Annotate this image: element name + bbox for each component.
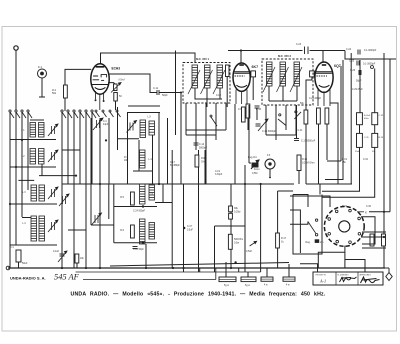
wire [195, 88, 222, 99]
svg-text:50-380pF: 50-380pF [170, 165, 180, 167]
trimmer C.5 [48, 220, 58, 232]
coil L.5 [31, 185, 37, 201]
junction [183, 227, 185, 229]
resistor R.1 [75, 254, 79, 263]
wire 6Q7 pins [318, 90, 330, 107]
coil L.13b [149, 223, 155, 240]
coil L.3 [30, 149, 36, 165]
junction [99, 183, 101, 185]
svg-text:APPROVATO: APPROVATO [360, 273, 372, 276]
capacitor C.17 [294, 139, 299, 141]
resistor R.18 [372, 113, 378, 125]
terminal [371, 66, 374, 69]
wire [206, 88, 208, 107]
coil L.13 [140, 219, 146, 244]
junction [172, 267, 174, 269]
coil L.2 [39, 123, 45, 138]
wire [145, 244, 147, 268]
svg-text:L.11: L.11 [149, 159, 154, 161]
ground bus [8, 267, 385, 269]
resistor R.5 [131, 192, 135, 205]
wire [15, 112, 17, 245]
svg-text:5g w: 5g w [224, 285, 229, 287]
wire [318, 124, 320, 184]
wire [108, 118, 110, 184]
band switch contacts left group [9, 110, 32, 118]
svg-text:5g w: 5g w [245, 285, 250, 287]
junction [85, 267, 87, 269]
wire [300, 264, 318, 272]
wire [9, 112, 11, 268]
trimmer C.13 [59, 194, 69, 206]
trimmer arrow MF1 [188, 70, 225, 94]
terminal lug 4 [283, 277, 295, 281]
wire [350, 53, 352, 184]
svg-text:C.24: C.24 [346, 48, 352, 51]
wire [10, 203, 57, 205]
wire [249, 162, 251, 164]
svg-text:M.F. 450 1: M.F. 450 1 [196, 57, 210, 61]
wire [248, 105, 250, 163]
wire bus [76, 271, 261, 273]
junction [383, 236, 385, 238]
wire [61, 112, 63, 268]
wire [362, 247, 386, 249]
wire [228, 50, 303, 52]
wire [290, 222, 308, 225]
wire [268, 86, 270, 101]
fuse F.1 [38, 69, 47, 97]
junction [99, 267, 101, 269]
wire [247, 272, 249, 277]
junction [15, 166, 17, 168]
capacitor C.24 [358, 50, 360, 55]
wire [18, 179, 34, 181]
wire 6K7 pins [236, 90, 247, 105]
svg-text:R.19: R.19 [342, 159, 348, 161]
wire [244, 165, 246, 272]
wire [266, 134, 296, 136]
wire [64, 98, 66, 111]
speaker [324, 207, 364, 247]
svg-text:C.36: C.36 [366, 206, 372, 208]
IF transformer M.F.450-1 box [183, 63, 230, 104]
svg-text:C.31: C.31 [364, 137, 369, 139]
wire [128, 112, 160, 114]
wire [340, 66, 342, 161]
junction [230, 267, 232, 269]
pin dot [95, 99, 97, 101]
wire [108, 184, 110, 219]
svg-text:50pF: 50pF [356, 80, 362, 83]
svg-text:C.29 25uF: C.29 25uF [352, 89, 363, 91]
junction [21, 139, 23, 141]
coil MF1-b [205, 65, 211, 88]
junction [260, 183, 262, 185]
junction [145, 267, 147, 269]
svg-text:C.16 5000pF: C.16 5000pF [262, 130, 276, 133]
junction [244, 183, 246, 185]
svg-text:0,5w: 0,5w [234, 241, 239, 244]
svg-text:C.11: C.11 [153, 87, 159, 90]
stamp box [313, 272, 383, 285]
wire [247, 118, 249, 130]
signature 3 [361, 277, 380, 283]
trimmer arrow MF2 [263, 67, 302, 92]
label X [357, 211, 364, 213]
wire [214, 226, 216, 272]
wire [39, 175, 76, 177]
resistor R.20 [370, 234, 374, 246]
wire [90, 184, 92, 225]
resistor R.21 [382, 234, 386, 246]
pin dot [103, 100, 105, 102]
svg-text:Reg.: Reg. [306, 241, 311, 244]
jack F.3 [265, 159, 275, 176]
wire top bracket [101, 53, 196, 64]
trimmer C.2 [48, 124, 58, 136]
coil MF2-c [294, 62, 300, 86]
junction [182, 267, 184, 269]
wire [285, 105, 287, 130]
wire [326, 124, 328, 160]
wire [359, 125, 361, 134]
svg-text:Fono: Fono [254, 168, 260, 171]
svg-text:4 w: 4 w [286, 285, 290, 287]
svg-text:5000 pF: 5000 pF [307, 140, 316, 143]
svg-text:0,25w: 0,25w [234, 210, 241, 213]
wire [389, 59, 391, 212]
capacitor C.9 [255, 106, 260, 108]
wire [127, 112, 129, 184]
svg-text:C.32: C.32 [379, 115, 384, 117]
wire [180, 93, 182, 185]
svg-text:A-1: A-1 [319, 279, 326, 284]
junction [158, 183, 160, 185]
wire [162, 184, 164, 203]
tube ECH3 [91, 64, 109, 94]
wire [322, 148, 360, 192]
wire [290, 210, 300, 253]
wire [186, 134, 216, 136]
wire [325, 60, 343, 180]
wire [269, 100, 297, 102]
capacitor C.1 electrolytic [16, 250, 21, 262]
svg-text:3-30pF: 3-30pF [215, 174, 223, 176]
output transformer [293, 195, 322, 255]
svg-text:0,25M Ohm: 0,25M Ohm [302, 161, 315, 164]
capacitor C.35 [60, 254, 65, 256]
wire [345, 51, 396, 60]
wire [73, 112, 75, 268]
trimmer C.3 [48, 150, 58, 162]
capacitor C.11 [157, 90, 159, 95]
wire [290, 196, 330, 207]
wire [117, 107, 119, 150]
tube 6K7 [233, 63, 256, 91]
wire [383, 53, 385, 268]
wire [369, 211, 390, 213]
svg-text:L.12: L.12 [149, 194, 154, 196]
wire [275, 105, 277, 140]
resistor R.16b [297, 155, 301, 171]
junction [9, 203, 11, 205]
wire bus [83, 279, 216, 281]
svg-text:0,5M: 0,5M [252, 172, 257, 175]
wire [345, 260, 365, 273]
terminal lug 2 [241, 277, 256, 282]
capacitor C.25 [357, 61, 359, 66]
wire [361, 236, 384, 238]
wire [41, 164, 43, 176]
wire [114, 206, 157, 208]
svg-text:C.18 50pF: C.18 50pF [133, 249, 144, 251]
wire [10, 166, 56, 168]
switch S.3 [278, 114, 286, 126]
switch S.2 [210, 115, 217, 126]
wire [215, 268, 217, 280]
resistor R.9 [195, 155, 199, 167]
svg-text:C.1: C.1 [10, 246, 14, 249]
wire [199, 268, 201, 272]
svg-text:Ohm: Ohm [201, 160, 206, 163]
capacitor C.18 [133, 247, 138, 249]
resistor R.12a [229, 206, 233, 212]
wire [108, 83, 115, 84]
wire [215, 103, 217, 140]
band switch contacts osc [95, 110, 121, 117]
ground arrow [385, 268, 392, 281]
tone potentiometer [315, 239, 320, 243]
wire [138, 140, 140, 171]
ground terminal [6, 266, 10, 270]
potentiometer arrow 2 [250, 241, 257, 246]
wire [225, 262, 227, 277]
trimmer C.8 [93, 118, 103, 130]
wire [277, 248, 279, 268]
wire [238, 268, 240, 272]
wire [295, 105, 297, 135]
wire [79, 112, 81, 184]
wire [204, 150, 206, 184]
svg-text:5000pF: 5000pF [199, 146, 208, 149]
wire [219, 88, 221, 99]
wire [306, 77, 312, 110]
potentiometer arrow 3 [58, 251, 67, 262]
svg-text:C.22 200pF: C.22 200pF [309, 98, 322, 100]
wire [76, 263, 78, 268]
wire [374, 69, 376, 113]
coil MF2-b [280, 62, 286, 86]
wire [159, 92, 181, 94]
resistor R.3 [114, 93, 118, 102]
wire [310, 50, 346, 52]
wire [22, 217, 31, 219]
svg-text:0,1-3000pF: 0,1-3000pF [363, 63, 376, 66]
IF transformer M.F.450-2 box [262, 59, 313, 105]
wire [198, 150, 200, 272]
svg-text:C.37: C.37 [187, 226, 193, 228]
svg-text:6Q7: 6Q7 [334, 64, 341, 68]
trimmer C.6 [114, 84, 118, 91]
resistor R.17 [276, 233, 280, 248]
trimmer C.12 [92, 213, 102, 225]
svg-text:R.5: R.5 [120, 196, 124, 199]
resistor R.10 [246, 104, 250, 118]
wire [282, 86, 284, 101]
svg-text:C.25: C.25 [349, 60, 355, 63]
capacitor C.14 [194, 143, 199, 145]
svg-text:R.22: R.22 [342, 206, 348, 208]
svg-text:C.17: C.17 [170, 162, 176, 164]
capacitor C.20 [256, 124, 261, 126]
wire [186, 129, 226, 131]
switch S.4 [294, 111, 301, 119]
star mark [234, 261, 236, 263]
signature 2 [340, 277, 357, 282]
wire [330, 103, 338, 184]
resistor R.6 [131, 225, 135, 238]
svg-text:C.32: C.32 [363, 159, 369, 161]
svg-text:545 AF: 545 AF [54, 273, 80, 282]
wire [90, 118, 92, 184]
resistor R.13 [304, 110, 308, 124]
wire [27, 112, 29, 190]
wire [68, 229, 86, 231]
wire [128, 105, 160, 107]
wire [171, 150, 173, 268]
svg-text:R.23: R.23 [379, 137, 384, 139]
wire [234, 104, 236, 184]
junction [142, 242, 144, 244]
svg-text:44pF: 44pF [103, 124, 109, 126]
wire [115, 101, 117, 110]
coil MF2-a [267, 62, 273, 86]
wire [266, 268, 268, 277]
capacitor C.26 [359, 70, 361, 75]
svg-text:ECH3: ECH3 [112, 66, 121, 70]
wire bus [306, 183, 352, 185]
svg-text:C.19: C.19 [215, 171, 221, 173]
wire [344, 246, 346, 268]
wire [155, 202, 172, 204]
terminal lug 1 [219, 277, 236, 282]
wire [230, 184, 232, 268]
resistor R.11 [242, 107, 246, 122]
wire [113, 184, 115, 243]
svg-text:UNDA RADIO. — Modello «545: UNDA RADIO. — Modello «545». - Produzion… [71, 291, 326, 297]
volume potentiometer [251, 160, 259, 169]
wire [114, 242, 157, 244]
resistor R.2 [64, 85, 68, 98]
band switch contacts middle group [61, 110, 96, 118]
wire [319, 184, 321, 195]
resistor R.14 [317, 108, 321, 124]
resistor R.19 [372, 133, 378, 147]
wire [298, 171, 300, 185]
wire [318, 252, 345, 268]
wire [185, 103, 187, 135]
wire [252, 77, 254, 100]
wire [65, 69, 91, 85]
svg-text:x: x [365, 211, 367, 215]
wire [85, 112, 87, 268]
svg-text:0,1-3000pF: 0,1-3000pF [364, 49, 377, 52]
wire bus [62, 183, 294, 185]
coil L.10 [149, 121, 155, 135]
coil L.8 [39, 216, 45, 241]
tube 6Q7 [310, 62, 334, 92]
wire [256, 108, 258, 120]
junction [240, 49, 242, 51]
svg-text:UNDA-RADIO S. A.: UNDA-RADIO S. A. [10, 276, 46, 281]
wire [175, 51, 177, 136]
potentiometer arrow [258, 119, 268, 131]
svg-text:C.24 500pF: C.24 500pF [133, 211, 146, 213]
wire [215, 225, 246, 227]
coil L.9 [140, 120, 146, 138]
coil L.7 [31, 216, 37, 241]
wire [109, 74, 157, 93]
svg-text:C.21: C.21 [298, 130, 304, 132]
resistor R.8 [226, 65, 230, 77]
wire [305, 124, 307, 184]
wire [10, 139, 56, 141]
wire [288, 264, 290, 277]
coil L.4 [39, 149, 45, 165]
speaker lugs [328, 209, 361, 243]
trimmer C.4 [48, 187, 58, 199]
wire [67, 112, 69, 184]
svg-text:M.F. 450 2: M.F. 450 2 [278, 54, 292, 58]
wire [195, 103, 197, 150]
coil MF1-a [192, 65, 198, 88]
junction [383, 211, 385, 213]
junction [75, 175, 77, 177]
resistor R.16 [228, 234, 232, 249]
wire [293, 195, 308, 208]
svg-text:R.6: R.6 [120, 229, 124, 232]
wire [91, 224, 114, 226]
wire [296, 86, 298, 101]
wire [99, 118, 101, 268]
coil MF1-c [217, 65, 223, 88]
wire [91, 112, 93, 184]
wire [278, 190, 293, 192]
wire [133, 170, 152, 172]
junction [142, 205, 144, 207]
capacitor C.31 electrolytic [357, 133, 363, 147]
wire [240, 51, 242, 64]
svg-text:0,1uF: 0,1uF [53, 250, 60, 253]
svg-text:F.1: F.1 [38, 65, 42, 69]
wire [322, 148, 375, 198]
svg-text:C.23: C.23 [296, 43, 302, 46]
svg-text:8+8uF: 8+8uF [364, 115, 371, 117]
wire [265, 105, 267, 135]
svg-text:N. DISEGNO: N. DISEGNO [338, 274, 350, 276]
capacitor C.23 [305, 47, 309, 55]
wire [167, 118, 169, 184]
wire [152, 135, 154, 184]
svg-text:50uF: 50uF [22, 262, 28, 265]
wire [205, 103, 207, 184]
wire ECH3 pins [96, 91, 104, 110]
junction [105, 139, 107, 141]
wire [361, 217, 375, 244]
svg-text:0,5uF: 0,5uF [246, 250, 253, 253]
svg-text:PROGETTO: PROGETTO [316, 274, 327, 276]
